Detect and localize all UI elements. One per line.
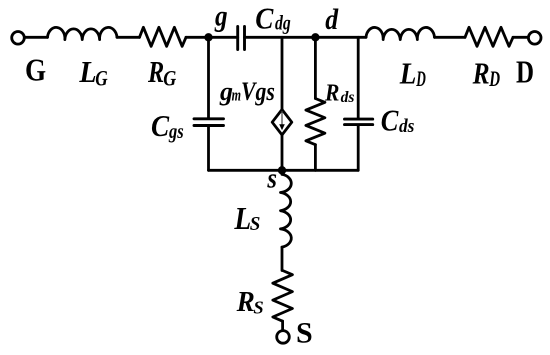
svg-text:Vgs: Vgs (241, 77, 275, 106)
svg-text:R: R (324, 81, 339, 107)
svg-text:G: G (25, 53, 46, 88)
svg-text:L: L (399, 55, 416, 90)
svg-text:R: R (236, 286, 255, 318)
svg-text:L: L (78, 54, 96, 89)
svg-text:D: D (516, 55, 534, 90)
svg-text:gs: gs (168, 121, 184, 143)
svg-text:D: D (416, 66, 426, 91)
svg-text:G: G (163, 66, 176, 91)
svg-text:R: R (472, 55, 490, 90)
svg-text:S: S (253, 297, 263, 317)
svg-text:ds: ds (399, 116, 414, 137)
svg-text:D: D (489, 66, 501, 91)
svg-text:C: C (255, 0, 273, 35)
svg-text:m: m (232, 86, 241, 105)
svg-text:S: S (296, 317, 313, 350)
svg-text:d: d (325, 3, 339, 36)
svg-text:C: C (381, 102, 399, 137)
svg-text:s: s (267, 163, 278, 194)
svg-text:ds: ds (341, 89, 355, 106)
svg-text:L: L (234, 200, 252, 236)
svg-text:R: R (147, 54, 164, 89)
svg-text:C: C (151, 108, 169, 143)
svg-text:dg: dg (275, 11, 291, 35)
svg-text:g: g (214, 0, 227, 32)
svg-text:S: S (250, 213, 261, 235)
svg-text:G: G (95, 66, 107, 91)
